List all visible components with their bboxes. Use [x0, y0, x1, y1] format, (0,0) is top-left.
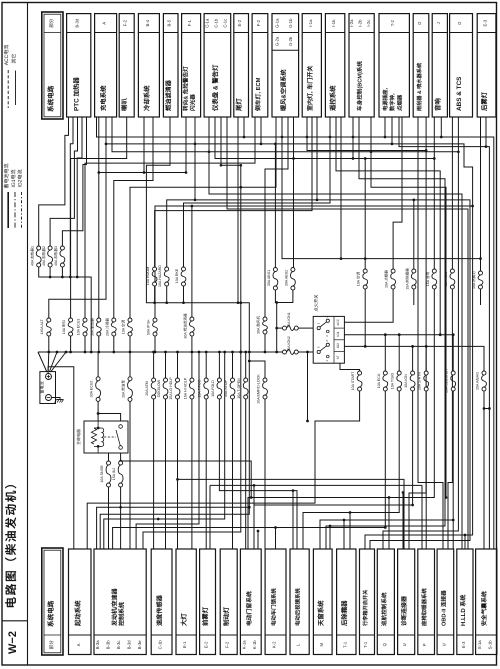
system box (top): keyless entry — [325, 14, 344, 117]
wire keyless stub 336 trunk — [336, 117, 440, 335]
svg-text:40A 加热器3: 40A 加热器3 — [53, 246, 58, 266]
wire defogger drop 344 — [343, 520, 345, 549]
svg-text:电路图（柴油发动机）: 电路图（柴油发动机） — [4, 476, 18, 609]
junction 293 tap — [292, 489, 295, 492]
junction bus352 x=232.5 — [231, 351, 234, 354]
fuse 10A ABS small — [450, 269, 454, 273]
svg-text:30A 燃油滤清器: 30A 燃油滤清器 — [182, 313, 187, 339]
wire ECU2 to relay — [97, 401, 99, 421]
system box (top): BCM system — [349, 14, 374, 117]
svg-text:F-2: F-2 — [256, 19, 261, 26]
svg-text:C-1a: C-1a — [205, 18, 210, 28]
wire cooling box riser — [143, 117, 145, 173]
junction B riser top — [306, 351, 309, 354]
fuse 15A fuel pump — [128, 377, 132, 381]
wire mirror drop 293 — [292, 491, 294, 549]
junction AC drop on R2 — [364, 157, 367, 160]
junction H479 left — [176, 478, 179, 481]
system box (bottom): power door lock system — [265, 549, 286, 655]
svg-text:IG2: IG2 — [336, 343, 340, 348]
svg-text:10A HAZARD: 10A HAZARD — [158, 265, 162, 287]
svg-text:电源插座,: 电源插座, — [382, 87, 389, 111]
svg-text:15A F/FOG: 15A F/FOG — [198, 379, 202, 397]
junction fuel filter on IPB — [191, 205, 194, 208]
wire hlld drop 465 — [464, 535, 466, 549]
svg-text:I-2a: I-2a — [349, 19, 354, 27]
wire drop to fuse 15A F/FOG — [205, 352, 207, 378]
fuse 30A IGN2 — [283, 350, 287, 354]
junction 385 on y137 — [384, 136, 387, 139]
svg-text:E-3: E-3 — [461, 641, 466, 648]
wire rear fog fuse riser — [480, 117, 482, 271]
wire ABS small bottom — [448, 289, 452, 549]
svg-text:ACC电流: ACC电流 — [3, 45, 10, 66]
junction gauge stub tee — [220, 164, 223, 167]
svg-text:电动门窗系统: 电动门窗系统 — [245, 591, 253, 626]
junction y137 hvac stub — [281, 136, 284, 139]
system box (top): audio — [432, 14, 447, 117]
svg-text:B-3a: B-3a — [95, 640, 100, 650]
wire fuel filter riser — [191, 206, 193, 303]
svg-text:30A ABS2: 30A ABS2 — [284, 270, 288, 286]
system box (bottom): HLLD system — [457, 549, 473, 655]
junction bus352 x=191.9 — [191, 351, 194, 354]
svg-text:A: A — [102, 22, 107, 25]
relay dashed link — [104, 436, 116, 438]
svg-text:K-1a: K-1a — [242, 640, 247, 650]
junction bus352 x=66 — [65, 351, 68, 354]
system box (top): power outlet clock lighter — [379, 14, 409, 117]
svg-text:10A FOLD: 10A FOLD — [211, 380, 215, 397]
junction heater common b — [61, 276, 64, 279]
wire lighter fuse to outlet box — [393, 117, 402, 269]
bus y137 top distribution — [97, 117, 494, 549]
junction IG1 TSIG — [398, 333, 401, 336]
wire tail lamp drop — [237, 117, 239, 303]
junction 353 on R2 — [352, 157, 355, 160]
junction R1 on y151 — [208, 150, 211, 153]
junction bus352 x=70.6 — [69, 351, 72, 354]
system box (bottom): seat heater system — [418, 549, 435, 655]
junction 392 on y144 — [391, 143, 394, 146]
svg-text:室内灯, 车门开关: 室内灯, 车门开关 — [306, 65, 314, 111]
system box (top): charging system — [95, 14, 117, 117]
fuse 15A F/FOG — [204, 378, 208, 382]
junction bus352 x=245.7 — [244, 351, 247, 354]
junction tail lamp on bus303 — [237, 301, 240, 304]
fuse 10A IGN — [411, 371, 415, 375]
wire HL7 engine link — [143, 352, 241, 549]
svg-text:15A 燃油泵: 15A 燃油泵 — [121, 380, 126, 398]
wire IGN route — [254, 391, 413, 549]
svg-text:电动后视镜系统: 电动后视镜系统 — [295, 588, 302, 626]
wire AC left fuse to bus — [129, 336, 131, 352]
junction bus352 x=219.4 — [218, 351, 221, 354]
ignition contact upper — [317, 327, 320, 330]
wire TOPEN to window box — [245, 399, 247, 549]
fuse 30A blower — [263, 317, 267, 321]
svg-text:雨刮器 & 喷水器系统: 雨刮器 & 喷水器系统 — [416, 62, 423, 111]
junction 350 tap — [349, 511, 352, 514]
svg-text:F-1: F-1 — [187, 19, 192, 26]
wire ABS1 fuse riser — [274, 144, 276, 268]
svg-text:F-2: F-2 — [225, 641, 230, 648]
junction bus352 x=199 — [198, 351, 201, 354]
junction relay coil bottom — [97, 445, 100, 448]
wire ECU2 drop — [97, 352, 99, 377]
svg-text:20A S-HTR: 20A S-HTR — [418, 372, 422, 391]
wire heater fuse2 stub — [49, 267, 51, 277]
junction gauge corner — [239, 164, 242, 167]
junction 341 on AC branch — [340, 257, 343, 260]
wire ROOM fuse to room lamp box — [155, 117, 312, 267]
svg-text:发动机/变速器: 发动机/变速器 — [111, 587, 119, 627]
legend line sample battery (solid thick) — [7, 192, 9, 228]
wire flasher mega trunk — [195, 117, 470, 549]
svg-text:10A START: 10A START — [351, 371, 355, 390]
wire fuel filter branch bus y303 — [100, 117, 249, 549]
fuse 10A SNSR — [107, 461, 111, 465]
legend line sample ACC (dashed) — [7, 70, 9, 108]
svg-text:J: J — [436, 22, 441, 24]
svg-text:遥控系统: 遥控系统 — [329, 85, 337, 111]
svg-text:安全气囊系统: 安全气囊系统 — [480, 591, 488, 626]
junction B riser bottom — [306, 420, 309, 423]
junction bus352 x=206.2 — [205, 351, 208, 354]
junction R2 audio — [433, 157, 436, 160]
system box (bottom): OBD-II connector — [437, 549, 454, 655]
svg-text:喇叭: 喇叭 — [121, 98, 129, 111]
wire flasher stub 186 — [185, 117, 187, 173]
svg-text:转向& 危险警告灯: 转向& 危险警告灯 — [183, 66, 190, 111]
junction 258 tap — [257, 530, 260, 533]
svg-text:10A 空调: 10A 空调 — [121, 319, 126, 334]
system box (bottom): headlamps — [176, 549, 196, 655]
wire front defog riser — [413, 200, 415, 269]
fuse 10A horn — [69, 318, 73, 322]
wire cooling link y172 — [99, 172, 186, 174]
wire IG1 output bus — [344, 334, 453, 336]
junction ECU2 branch — [97, 412, 100, 415]
wire PTC common drop a — [70, 117, 73, 277]
wire PTC heater feed 3 — [62, 117, 86, 246]
wire tail stub 244 — [243, 117, 245, 137]
svg-text:闪光器: 闪光器 — [190, 94, 197, 111]
fuse 140A ALT — [47, 318, 51, 322]
svg-text:后除霜器: 后除霜器 — [340, 600, 348, 626]
svg-text:M: M — [319, 643, 324, 647]
svg-text:G-1b: G-1b — [288, 18, 293, 28]
svg-text:燃油滤清器: 燃油滤清器 — [165, 79, 173, 111]
wire battery positive to starter — [48, 367, 74, 549]
system box (bottom): power window system — [240, 549, 261, 655]
wire 50A IP B+ trunk — [155, 206, 473, 549]
svg-text:其它: 其它 — [11, 53, 18, 63]
svg-text:蓄电池电流: 蓄电池电流 — [3, 163, 10, 188]
wire bus line y144 — [106, 144, 473, 206]
fuse 50A IP B+ — [153, 318, 157, 322]
wire HAZARD fuse riser — [167, 200, 195, 267]
wire sunroof drop 330 — [329, 526, 331, 549]
battery negative terminal — [46, 395, 52, 401]
svg-text:E-3: E-3 — [483, 19, 488, 26]
wire relay out INJ — [120, 453, 122, 461]
wire B riser below bus — [307, 352, 309, 421]
relay coil — [102, 428, 104, 446]
junction cooling riser — [143, 171, 146, 174]
battery fan wire c — [49, 352, 57, 372]
fuse 15A STOP — [231, 378, 235, 382]
svg-text:起动系统: 起动系统 — [74, 600, 82, 627]
system box (top): wiper washer system — [413, 14, 429, 117]
wire wiper stub 426 — [425, 117, 427, 151]
wire audio fuse bottom drop — [248, 289, 434, 549]
wire HI HDLP to headlamp box — [191, 399, 193, 549]
fuse 40A heater3 — [60, 246, 64, 250]
junction ABS2 on R2 — [292, 157, 295, 160]
wire diag drop 403 — [402, 493, 404, 550]
wire backup/ECM stub2 — [260, 117, 262, 144]
wire drop to fuse 10A T-OPEN — [245, 352, 247, 378]
svg-text:20A ATM: 20A ATM — [145, 381, 149, 395]
junction airbag loop — [488, 407, 491, 410]
wire BCM stub 371 — [371, 117, 446, 498]
svg-text:点烟器: 点烟器 — [396, 94, 403, 111]
wire ABS TCS stub 458 — [457, 117, 459, 152]
svg-text:15A HI HDLP: 15A HI HDLP — [183, 377, 187, 399]
wire ATM to sensor box — [153, 399, 155, 549]
svg-text:座椅取暖器系统: 座椅取暖器系统 — [421, 588, 428, 627]
wire ST output — [340, 363, 360, 371]
junction bus352 x=57 — [56, 351, 59, 354]
wire drop to fuse 10A FOLD — [218, 352, 220, 378]
fuse 10A rear fog — [479, 271, 483, 275]
junction 371 on y151 — [370, 150, 373, 153]
system box (bottom): rear defogger — [337, 549, 356, 655]
svg-text:B-3c: B-3c — [116, 640, 121, 649]
fuse 10A RKE — [182, 267, 186, 271]
wire front defog bottom — [413, 289, 415, 305]
fuse 15A audio — [432, 269, 436, 273]
fuse 15A INJ — [119, 461, 123, 465]
wire EMF top — [249, 361, 265, 378]
relay main box — [84, 421, 128, 453]
svg-text:天窗系统: 天窗系统 — [317, 600, 325, 626]
junction bus352 x=130 — [129, 351, 132, 354]
wire ECU2 branch to relay contact — [98, 414, 121, 422]
svg-text:I-2b: I-2b — [358, 19, 363, 27]
battery fan wire b — [47, 352, 50, 372]
battery box — [40, 372, 56, 404]
junction heater common d — [76, 276, 79, 279]
junction bus352 x=276.7 — [275, 351, 278, 354]
wire window drop 258 — [257, 531, 259, 549]
wire CLUSTER riser — [452, 335, 454, 371]
system box (top): PTC heater — [67, 14, 91, 117]
junction ECM stub on y144 — [260, 143, 263, 146]
junction IGN1 tap — [275, 327, 278, 330]
junction radiator tap — [97, 171, 100, 174]
svg-text:15A 前除霜器: 15A 前除霜器 — [404, 268, 409, 290]
fuse 30A fuel filter — [190, 317, 194, 321]
svg-text:20A 冷凝器: 20A 冷凝器 — [104, 318, 109, 336]
system box (bottom): starting system — [69, 549, 92, 655]
junction 240 on bus303 — [239, 301, 242, 304]
wire ACC branch to rear fog fuse — [365, 258, 480, 260]
junction bus352 x=224.7 — [223, 351, 226, 354]
junction relay coil top — [97, 427, 100, 430]
wire heater fuses common — [39, 267, 91, 352]
sidebar separator line — [27, 3, 29, 666]
svg-text:速度传感器: 速度传感器 — [156, 594, 164, 626]
fuse 10A START — [358, 371, 362, 375]
fuse 15A ROOM — [153, 267, 157, 271]
system box (top): rear fog lamp — [477, 14, 496, 117]
wire horn fuse to bus — [70, 336, 72, 352]
fuse 15A A/BAG — [482, 371, 486, 375]
sidebar divider — [2, 620, 28, 622]
junction 426 on y150 — [425, 149, 428, 152]
svg-text:E-1: E-1 — [182, 641, 187, 648]
battery positive terminal — [46, 374, 52, 380]
svg-text:10A RKE: 10A RKE — [175, 268, 179, 283]
svg-text:C-1b: C-1b — [213, 18, 218, 28]
svg-text:E-2: E-2 — [237, 19, 242, 26]
relay contact — [119, 425, 123, 429]
fuse 20A condenser — [112, 318, 116, 322]
junction airbag fuse out — [483, 407, 486, 410]
svg-text:C-1c: C-1c — [222, 19, 227, 28]
system box (top): room lamp door switch — [302, 14, 321, 117]
legend line sample IG1 (dash-dot) — [14, 192, 16, 228]
svg-text:车身控制(BCM)系统: 车身控制(BCM)系统 — [357, 61, 364, 111]
svg-text:后雾灯: 后雾灯 — [481, 91, 489, 111]
wire HL5 sensor link — [104, 352, 225, 549]
svg-text:15A INJ: 15A INJ — [112, 468, 116, 481]
svg-text:仪表盘 & 警告灯: 仪表盘 & 警告灯 — [211, 64, 219, 112]
system box (top): cluster and warning lamps — [204, 14, 231, 117]
svg-text:U: U — [402, 643, 407, 646]
svg-text:F-2: F-2 — [123, 19, 128, 26]
wire battery negative to ground — [52, 398, 61, 400]
system box (bottom): sunroof system — [313, 549, 332, 655]
svg-text:行李箱开启开关: 行李箱开启开关 — [362, 589, 369, 627]
junction bus352 x=165.5 — [164, 351, 167, 354]
legend line sample other (solid) — [15, 71, 17, 106]
wire RKE fuse to keyless box — [184, 117, 331, 267]
wire ECU riser — [384, 335, 386, 371]
wire ROOM group bus — [154, 286, 156, 303]
svg-text:蓄电池: 蓄电池 — [39, 382, 44, 394]
svg-text:K-2: K-2 — [272, 641, 277, 648]
svg-text:点火开关: 点火开关 — [314, 294, 319, 312]
wire SHTR to seat heater box — [425, 391, 427, 549]
svg-text:10A SNSR: 10A SNSR — [100, 465, 104, 483]
wire cluster feed R2 — [215, 117, 434, 159]
wire drop to fuse 15A STOP — [232, 352, 234, 378]
wire drop to fuse 15A HI HDLP — [191, 352, 193, 378]
junction ABS1 on y144 — [274, 143, 277, 146]
junction IG1 ECU — [384, 333, 387, 336]
system box (top): ABS TCS — [450, 14, 473, 117]
svg-text:15A ROOM: 15A ROOM — [146, 267, 150, 285]
junction INJ link drop — [250, 496, 253, 499]
wire HVAC stub2 blower — [265, 117, 288, 317]
svg-text:B-3e: B-3e — [137, 640, 142, 650]
svg-text:部分: 部分 — [49, 18, 54, 28]
svg-text:冷却系统: 冷却系统 — [143, 85, 151, 111]
svg-text:制动灯: 制动灯 — [223, 606, 231, 626]
svg-text:音响: 音响 — [434, 98, 442, 111]
svg-text:A: A — [76, 643, 81, 646]
svg-text:部分: 部分 — [49, 640, 54, 650]
wire SNSR to engine box — [108, 487, 110, 549]
fuse 20A S-HTR — [424, 371, 428, 375]
svg-text:I-1b: I-1b — [331, 19, 336, 27]
system box (bottom): diagnosis connector — [398, 549, 415, 655]
svg-text:T-2: T-2 — [390, 20, 395, 27]
svg-text:10A 后雾灯: 10A 后雾灯 — [472, 271, 476, 289]
svg-text:30A 鼓风机: 30A 鼓风机 — [256, 316, 261, 334]
wire drop to fuse 20A ATM — [153, 352, 155, 378]
wire SHTR riser — [425, 346, 427, 371]
svg-text:B-4: B-4 — [145, 19, 150, 26]
svg-text:I-1a: I-1a — [308, 19, 313, 27]
fuse 20A ATM — [152, 378, 156, 382]
ground symbol — [57, 399, 64, 401]
wire defogger drop 350 — [349, 513, 351, 550]
wire outlet stub 399 right loop — [399, 117, 489, 409]
junction 486 on y146 — [485, 145, 488, 148]
svg-text:倒车灯, ECM: 倒车灯, ECM — [254, 77, 262, 112]
fuse 30A ECU2 — [96, 377, 100, 381]
wire room lamp stub 307 mega — [307, 117, 426, 549]
junction room c — [182, 301, 185, 304]
wire LO HDLP to headlamp box — [177, 399, 179, 549]
wire IGN1 to switch — [298, 327, 313, 329]
svg-text:尾灯: 尾灯 — [235, 98, 243, 111]
svg-text:ABS & TCS: ABS & TCS — [456, 76, 463, 111]
battery fan wire a — [38, 352, 47, 372]
wire radiator fuse to bus — [98, 336, 100, 352]
svg-text:B-3d: B-3d — [127, 640, 132, 650]
junction y137 room stub — [306, 136, 309, 139]
svg-text:30A ABS1: 30A ABS1 — [267, 270, 271, 286]
junction rear fog tee — [479, 257, 482, 260]
junction IG2 SHTR — [425, 345, 428, 348]
fuse 40A heater1 — [37, 246, 41, 250]
wire ABAG to airbag box — [483, 391, 485, 549]
wire cluster feed L209 — [227, 117, 468, 549]
wire airbag right drop — [488, 409, 490, 550]
wire ABS2 fuse riser — [293, 117, 295, 268]
wire HL3 engine link — [97, 507, 250, 549]
junction bus352 x=113.8 — [112, 351, 115, 354]
svg-text:10A ABS: 10A ABS — [444, 271, 448, 286]
wire TSIG riser — [398, 335, 400, 371]
svg-text:T-1: T-1 — [342, 641, 347, 648]
svg-text:E-2: E-2 — [204, 641, 209, 648]
system box (bottom): cruise control system — [377, 549, 394, 655]
wire 140A ALT fuse to bus — [48, 336, 50, 352]
fuse ODO/LOW — [164, 378, 168, 382]
junction door lock tap — [274, 526, 277, 529]
wire ODO to sensor box — [165, 399, 167, 549]
junction 330 tap — [329, 525, 332, 528]
junction y144 on ALT drop — [105, 143, 108, 146]
wire HL6 engine link — [136, 352, 199, 549]
svg-text:P: P — [422, 643, 427, 646]
